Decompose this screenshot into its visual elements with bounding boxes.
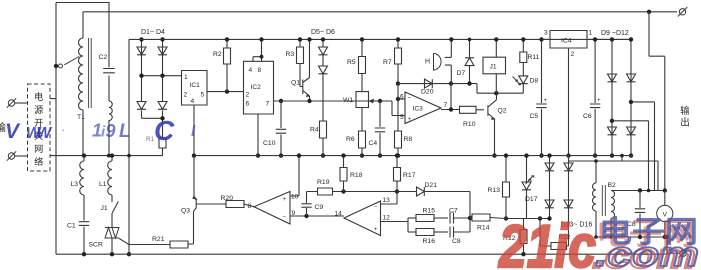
svg-text:+: + [544,98,548,104]
watermark blue www.21ic.com [5,115,196,146]
wire D5-D6 branch [322,39,324,155]
wire W1 wiper to IC3 pin5 [392,101,405,116]
svg-text:R7: R7 [383,59,392,66]
svg-text:W1: W1 [343,97,353,104]
resistor R14 [470,217,472,219]
node D1-D4 bottom merge [160,116,164,120]
resistor R7 [397,39,399,48]
wire output tap line [506,218,550,220]
resistor R12 [523,219,525,230]
terminal output bottom-right [678,249,687,258]
svg-text:出: 出 [680,117,690,129]
wire J1 top [495,39,497,57]
svg-text:−: − [374,204,378,210]
svg-text:C10: C10 [263,140,276,147]
wire right feed jog [649,12,665,191]
svg-text:R2: R2 [213,51,222,58]
relay contact J1 [112,195,118,214]
wire mid bus left segment [50,155,163,157]
transistor Q2 [488,93,497,155]
svg-text:+: + [283,197,287,203]
voltmeter V [664,191,666,206]
transformer T1 core [89,38,92,108]
resistor R4 [320,121,327,138]
diode D12 [627,127,636,135]
wire switch box to line [50,98,56,100]
wire D9-D12 left tap [610,119,614,123]
wire IC2 pin7 line [274,100,393,102]
wire IC3 pin6 stub [398,98,405,100]
wire IC1 pin5 to IC2 pin2 [207,91,244,93]
diode D5 [319,47,328,55]
resistor R18 [343,156,345,168]
svg-text:T1: T1 [77,114,85,121]
transformer T1 primary [82,12,84,38]
transformer B2 secondary [611,191,615,219]
capacitor C2 [103,69,115,73]
diode D2 [158,47,167,55]
wire D20 output vertical [450,84,452,110]
transformer T1 secondary [109,101,112,121]
wire D1-D4 midtap to IC1 pin1 [142,75,182,77]
wire pin10 [290,156,299,196]
svg-text:2: 2 [184,92,188,99]
capacitor C10 [279,99,283,103]
resistor R22 [551,243,567,250]
svg-text:4: 4 [191,98,195,105]
svg-text:C6: C6 [583,113,592,120]
resistor R10 [460,106,477,113]
svg-text:4: 4 [249,67,253,74]
triac SCR [111,214,113,228]
wire D9-D12 right tap [629,100,633,104]
resistor R17 [396,156,398,168]
svg-text:电: 电 [34,91,43,102]
relay J1 coil box [483,57,506,74]
svg-text:网: 网 [34,144,43,154]
svg-text:R19: R19 [317,179,330,186]
svg-text:3: 3 [544,30,548,37]
regulator IC4 [550,31,587,49]
svg-text:R20: R20 [221,195,234,202]
svg-text:C4: C4 [369,140,378,147]
svg-text:R11: R11 [528,54,540,61]
op-amp IC3 [405,92,441,124]
svg-text:−: − [408,96,412,102]
diode D9 [608,74,617,82]
wire output bottom bus [594,236,667,238]
wire right column link to nest [569,161,659,191]
diode D11 [608,127,617,135]
svg-text:D7: D7 [457,70,466,77]
resistor R15 [408,217,416,219]
wire D1-D4 right column [162,39,164,138]
svg-text:D1~ D4: D1~ D4 [141,29,165,36]
svg-text:C8: C8 [452,238,461,245]
wire J1 bottom [495,74,497,93]
svg-text:B2: B2 [608,182,617,189]
wire D9-D12 right column [630,39,632,155]
wire return line left [128,39,130,254]
svg-text:输: 输 [680,105,690,117]
capacitor C6 [594,39,596,103]
diode D7 [469,39,471,83]
wire pin13 [381,192,398,205]
transformer B2 primary [595,161,597,183]
diode D10 [627,74,636,82]
wire D21 to RC node [424,192,471,233]
buzzer H [434,53,442,70]
svg-text:IC3: IC3 [413,106,424,113]
LED D8 [519,76,528,84]
svg-text:12: 12 [383,215,391,222]
wire top supply line [83,11,677,13]
svg-text:10: 10 [291,194,299,201]
svg-text:V: V [5,120,21,143]
resistor R1 [159,138,166,148]
diode D14 [545,200,554,208]
capacitor C7 [450,213,454,224]
svg-text:J1: J1 [101,205,108,212]
svg-text:.: . [62,123,65,133]
svg-text:R13: R13 [488,187,501,194]
svg-text:R17: R17 [403,172,416,179]
node top-right junction [647,10,651,14]
transistor Q1 [300,39,310,101]
svg-text:.com: .com [595,235,699,270]
resistor R3 [299,39,301,47]
wire R10 to Q2 base [476,109,484,111]
wire triac gate [119,238,170,244]
node R7/D20/pin6 [396,81,400,85]
wire D1-D4 left column [142,39,163,118]
wire IC3 pin7 output [441,109,460,111]
svg-text:+: + [597,98,601,104]
switch S contact [54,64,58,68]
svg-text:+: + [374,227,378,233]
resistor R20 [226,201,244,208]
svg-text:13: 13 [383,197,391,204]
wire rectified top bus [129,38,631,40]
wire input lower stub [15,155,28,157]
wire buzzer top lead [445,39,452,57]
svg-text:R4: R4 [310,127,319,134]
svg-text:D17: D17 [525,196,538,203]
wire IC2 top to bus [253,39,262,61]
wire W1 wiper arrow [370,100,378,102]
wire IC4 pin2 ground [568,48,570,156]
svg-text:W: W [37,125,53,142]
wire IC4 pin1 [587,38,631,40]
wire mid bus right segment [194,155,633,157]
wire D9-D12 left column [611,39,613,155]
terminal output top-right [678,7,687,16]
IC U2 (IC2) [244,61,274,114]
power switch network box [28,84,51,171]
svg-text:8: 8 [248,203,252,210]
inductor L1 [111,156,113,161]
svg-text:2: 2 [571,51,575,58]
node D1-D4 top junctions [139,37,143,41]
node pin4 line at mid bus [192,153,196,157]
svg-text:J1: J1 [490,64,497,71]
inductor L3 [83,156,85,161]
terminal input upper-left [7,98,16,107]
svg-text:C: C [154,115,175,146]
wire D13-D16 right column [568,156,570,246]
svg-text:D21: D21 [425,182,438,189]
wire D7 node line [451,84,523,94]
diode D13 [545,163,554,171]
wire R19 to D21 node line [333,191,417,193]
wire D13-D16 left column [549,156,551,219]
svg-text:L1: L1 [99,181,107,188]
svg-text:D20: D20 [421,89,434,96]
resistor R21 [170,241,188,248]
svg-text:9: 9 [106,121,116,141]
potentiometer W1 [356,92,369,108]
svg-text:L3: L3 [71,181,79,188]
wire B2 output line [611,190,665,192]
wire pin12 [381,218,409,232]
diode D21 [417,187,425,196]
resistor R6 [361,108,363,132]
comparator IC3b [254,192,290,225]
diode D4 [158,102,167,110]
svg-text:D5~ D6: D5~ D6 [311,29,335,36]
wire mid bus riser to nest [621,156,623,162]
svg-text:SCR: SCR [89,242,103,249]
svg-text:8: 8 [258,67,262,74]
svg-text:−: − [283,215,287,221]
transistor Q3 [188,196,226,244]
svg-text:L: L [119,121,131,142]
resistor R19 [318,188,333,195]
svg-text:6: 6 [246,101,250,108]
svg-text:14: 14 [335,211,343,218]
svg-text:+: + [408,117,412,123]
diode D20 [398,83,451,85]
svg-text:Q3: Q3 [181,208,190,215]
diode D16 [564,200,573,208]
diode D15 [564,163,573,171]
svg-text:R3: R3 [286,51,295,58]
resistor R13 [505,156,507,182]
svg-text:7: 7 [266,101,270,108]
wire IC4 pin3 [542,38,551,40]
terminal input lower-left [7,151,16,160]
svg-text:1: 1 [589,30,593,37]
svg-text:源: 源 [34,105,43,115]
svg-text:络: 络 [34,156,43,167]
resistor R11 [522,39,524,52]
diode D6 [319,66,328,74]
comparator IC3c [344,201,381,236]
diode D3 [137,102,146,110]
svg-text:6: 6 [400,94,404,101]
svg-text:1: 1 [184,74,188,81]
wire pin9 line [290,215,344,217]
capacitor C9 [306,208,308,216]
svg-text:H: H [425,59,430,66]
svg-text:R16: R16 [423,238,436,245]
wire R1 to mid bus [162,148,164,156]
wire output terminal jog [667,237,680,254]
svg-text:R10: R10 [463,121,476,128]
wire C2/secondary branch [108,3,110,102]
node T1 secondary bottom [107,154,111,158]
wire D8 bottom [522,83,524,93]
svg-text:R8: R8 [404,136,413,143]
diode D1 [137,47,146,55]
resistor R2 [226,39,228,48]
wire IC2 pin6 to mid bus [257,114,259,156]
svg-text:C7: C7 [449,208,458,215]
wire input upper stub [15,102,28,104]
svg-text:D9 ~D12: D9 ~D12 [601,30,629,37]
svg-text:9: 9 [292,210,296,217]
svg-text:IC2: IC2 [251,84,262,91]
svg-text:R21: R21 [152,236,165,243]
svg-text:2: 2 [246,92,250,99]
capacitor C8 [450,227,454,238]
resistor R8 [397,99,399,131]
node T1 primary bottom [82,153,86,157]
wire top-left loop [56,3,110,255]
svg-text:R6: R6 [346,136,355,143]
svg-text:R15: R15 [423,208,436,215]
svg-text:C5: C5 [530,113,539,120]
capacitor C4 [378,99,382,103]
svg-text:D8: D8 [530,78,539,85]
svg-text:7: 7 [444,102,448,109]
svg-text:R5: R5 [347,59,356,66]
capacitor C11 [638,188,642,192]
svg-text:IC4: IC4 [561,38,572,45]
wire IC1 pin4 down [193,105,195,196]
wire buzzer bottom lead [445,65,451,84]
LED D17 [526,156,528,182]
svg-text:5: 5 [201,92,205,99]
resistor R5 [361,39,363,56]
svg-text:IC1: IC1 [190,82,201,89]
svg-text:R14: R14 [477,225,490,232]
svg-text:C1: C1 [67,223,76,230]
svg-text:Q1: Q1 [291,80,300,87]
IC U1 (IC1) [182,71,208,106]
svg-text:R18: R18 [350,172,363,179]
svg-text:21ic: 21ic [498,213,596,270]
svg-text:Q2: Q2 [498,108,507,115]
svg-text:C9: C9 [315,204,324,211]
capacitor C5 [541,39,543,103]
transformer B2 core [602,185,605,216]
resistor R16 [408,231,416,233]
capacitor C1 [83,195,85,221]
svg-text:C2: C2 [99,54,108,61]
wire R20 to comparator [244,204,254,207]
wire bottom bus [56,253,667,255]
